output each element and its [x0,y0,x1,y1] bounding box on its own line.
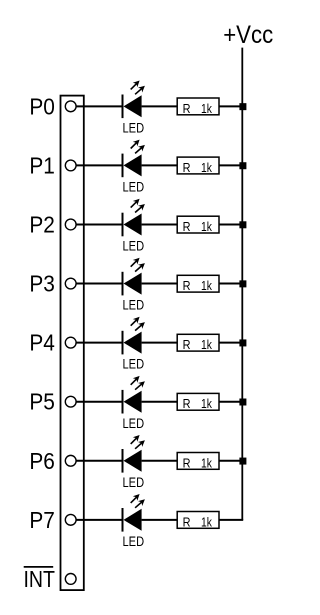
wire P3 pin to LED D4 cathode [76,283,123,285]
svg-text:P2: P2 [29,212,55,238]
junction node P0 rail dot [239,103,246,110]
svg-text:P7: P7 [29,507,55,533]
LED D7 label [123,475,145,490]
resistor R2 ref label R [183,161,191,175]
resistor R8 [177,512,219,529]
LED D7 [122,435,145,473]
pin P7 circle [65,514,76,525]
LED D5 label [123,357,145,372]
junction node P4 rail dot [239,339,246,346]
junction node P1 rail dot [239,162,246,169]
pin label P2 [29,212,55,238]
connector J1 box [61,96,84,590]
svg-text:P0: P0 [29,93,55,119]
resistor R2 [177,157,219,174]
LED D1 label [123,120,145,135]
resistor R7 value label 1k [201,456,213,470]
svg-text:P4: P4 [29,330,55,356]
wire P5 pin to LED D6 cathode [76,401,123,403]
wire resistor R4 to Vcc rail [219,283,243,285]
resistor R5 ref label R [183,338,191,352]
pin P1 circle [65,160,76,171]
svg-text:LED: LED [123,120,145,135]
pin P2 circle [65,219,76,230]
junction node P2 rail dot [239,221,246,228]
svg-text:1k: 1k [201,220,213,234]
resistor R6 [177,393,219,410]
svg-text:LED: LED [123,298,145,313]
pin label P4 [29,330,55,356]
wire resistor R7 to Vcc rail [219,460,243,462]
wire LED D7 anode to resistor R7 [142,460,178,462]
resistor R6 value label 1k [201,397,213,411]
pin label INT (active low) [24,566,56,592]
pin label P5 [29,389,55,415]
wire resistor R6 to Vcc rail [219,401,243,403]
resistor R4 [177,275,219,292]
svg-text:1k: 1k [201,338,213,352]
pin P0 circle [65,101,76,112]
LED D1 [122,81,145,119]
svg-text:1k: 1k [201,279,213,293]
pin P5 circle [65,396,76,407]
svg-text:P5: P5 [29,389,55,415]
junction node P3 rail dot [239,280,246,287]
svg-text:LED: LED [123,180,145,195]
wire LED D4 anode to resistor R4 [142,283,178,285]
wire LED D3 anode to resistor R3 [142,223,178,225]
svg-text:LED: LED [123,534,145,549]
resistor R3 ref label R [183,220,191,234]
wire resistor R2 to Vcc rail [219,164,243,166]
svg-text:R: R [183,220,191,234]
svg-text:+Vcc: +Vcc [223,21,273,49]
LED D8 [122,494,145,532]
resistor R8 value label 1k [201,515,213,529]
svg-text:R: R [183,456,191,470]
pin P4 circle [65,337,76,348]
wire LED D1 anode to resistor R1 [142,105,178,107]
resistor R4 ref label R [183,279,191,293]
resistor R4 value label 1k [201,279,213,293]
LED D4 label [123,298,145,313]
LED D2 label [123,180,145,195]
svg-text:R: R [183,279,191,293]
wire LED D5 anode to resistor R5 [142,342,178,344]
LED D4 [122,258,145,296]
wire P6 pin to LED D7 cathode [76,460,123,462]
pin P3 circle [65,278,76,289]
LED D6 label [123,416,145,431]
svg-text:LED: LED [123,239,145,254]
resistor R5 [177,334,219,351]
resistor R7 ref label R [183,456,191,470]
LED D3 label [123,239,145,254]
wire LED D8 anode to resistor R8 [142,519,178,521]
svg-text:1k: 1k [201,161,213,175]
wire P0 pin to LED D1 cathode [76,105,123,107]
pin label P7 [29,507,55,533]
wire resistor R5 to Vcc rail [219,342,243,344]
LED D6 [122,376,145,414]
pin label P1 [29,152,55,178]
svg-text:P1: P1 [29,152,55,178]
resistor R7 [177,453,219,470]
svg-text:1k: 1k [201,515,213,529]
pin label P0 [29,93,55,119]
resistor R3 value label 1k [201,220,213,234]
LED D3 [122,199,145,237]
wire resistor R3 to Vcc rail [219,223,243,225]
svg-text:R: R [183,102,191,116]
svg-text:1k: 1k [201,102,213,116]
LED D2 [122,140,145,178]
svg-text:P3: P3 [29,271,55,297]
svg-text:LED: LED [123,475,145,490]
svg-text:R: R [183,515,191,529]
wire P2 pin to LED D3 cathode [76,223,123,225]
svg-text:LED: LED [123,357,145,372]
junction node P5 rail dot [239,399,246,406]
resistor R1 ref label R [183,102,191,116]
svg-text:R: R [183,338,191,352]
pin P6 circle [65,455,76,466]
resistor R8 ref label R [183,515,191,529]
resistor R2 value label 1k [201,161,213,175]
svg-text:P6: P6 [29,448,55,474]
wire P7 pin to LED D8 cathode [76,519,123,521]
wire P4 pin to LED D5 cathode [76,342,123,344]
LED D5 [122,317,145,355]
wire P1 pin to LED D2 cathode [76,164,123,166]
wire resistor R1 to Vcc rail [219,105,243,107]
LED D8 label [123,534,145,549]
svg-text:1k: 1k [201,456,213,470]
INT overline [24,566,54,568]
junction node P6 rail dot [239,458,246,465]
svg-text:1k: 1k [201,397,213,411]
svg-text:R: R [183,161,191,175]
svg-text:LED: LED [123,416,145,431]
pin INT circle [65,574,76,585]
wire LED D2 anode to resistor R2 [142,164,178,166]
Vcc rail wire [241,48,243,520]
svg-text:R: R [183,397,191,411]
resistor R1 value label 1k [201,102,213,116]
wire LED D6 anode to resistor R6 [142,401,178,403]
resistor R3 [177,216,219,233]
resistor R1 [177,98,219,115]
pin label P6 [29,448,55,474]
+Vcc power label [223,21,273,49]
wire resistor R8 to Vcc rail [219,519,243,521]
pin label P3 [29,271,55,297]
resistor R5 value label 1k [201,338,213,352]
svg-text:INT: INT [24,566,56,592]
resistor R6 ref label R [183,397,191,411]
